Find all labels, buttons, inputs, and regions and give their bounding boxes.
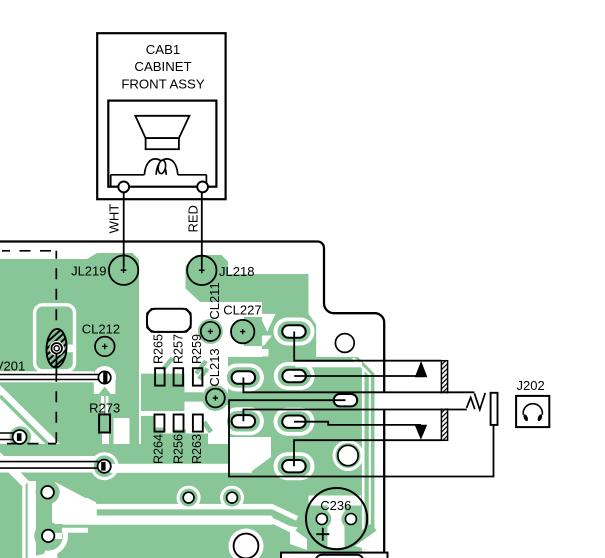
white band above bottom trace xyxy=(97,504,273,510)
resistor R263 xyxy=(190,415,204,465)
via V3 xyxy=(41,486,54,499)
wire from O6 to hatch bar xyxy=(294,440,441,466)
via V5 xyxy=(183,492,194,503)
white moat around bottom circle xyxy=(229,529,264,558)
resistor R256 xyxy=(172,415,186,465)
wire RED speaker to JL218 xyxy=(201,193,203,268)
white keyhole moat around V201 pad xyxy=(93,366,116,395)
jack JL219 xyxy=(71,256,138,285)
jack JL218 xyxy=(187,256,254,285)
oval pad A xyxy=(282,325,306,337)
green copper pour: right column xyxy=(262,302,316,358)
svg-text:RED: RED xyxy=(185,205,200,232)
white notch in right column xyxy=(259,314,276,332)
white vertical channels bottom-left xyxy=(22,481,25,558)
oval pad O4 xyxy=(232,415,256,427)
white trace moat around oval pad O6 xyxy=(274,452,315,480)
via V6 xyxy=(227,492,238,503)
oval pad O2 xyxy=(282,370,306,382)
white channel left of box area xyxy=(228,437,271,471)
green copper pour: strip under resistor row 2 xyxy=(141,434,208,447)
trace bend diagonals xyxy=(272,507,298,519)
svg-text:FRONT ASSY: FRONT ASSY xyxy=(121,76,205,91)
resistor R257 xyxy=(172,334,186,386)
green pad island P1 xyxy=(9,426,31,448)
wire from O5 with down arrow xyxy=(294,422,427,440)
green pad island O1 xyxy=(227,367,260,388)
white moat around P2 pad xyxy=(91,452,119,480)
svg-text:R264: R264 xyxy=(151,434,165,464)
oval pad in bottom box xyxy=(316,555,364,558)
green pad island O5 xyxy=(278,411,311,432)
green pad island A xyxy=(278,321,311,342)
white corner stripe cuts xyxy=(353,356,376,375)
svg-text:C236: C236 xyxy=(320,498,351,513)
green chevron under C236 xyxy=(298,527,374,554)
green bottom trace xyxy=(97,509,273,515)
resistor R259 xyxy=(190,334,204,386)
oval pad O5 xyxy=(282,416,306,428)
wires to pad P1 xyxy=(0,433,17,440)
white wedge below banner tip xyxy=(55,482,97,522)
green diagonal trace in white region xyxy=(60,482,98,502)
green bump CL213 xyxy=(202,385,232,411)
green bridge to CL213 xyxy=(185,392,204,401)
wire from O1: band top xyxy=(243,378,474,393)
speaker terminal left xyxy=(118,182,129,193)
svg-text:JL218: JL218 xyxy=(219,264,254,279)
white channel left below A xyxy=(254,349,269,356)
svg-text:CABINET: CABINET xyxy=(134,59,191,74)
white trace moat around oval pad O2 xyxy=(274,362,315,390)
white channel above green banner xyxy=(110,464,252,473)
svg-text:R256: R256 xyxy=(172,434,186,464)
break zigzag xyxy=(467,393,486,410)
voice coil xyxy=(111,159,207,187)
svg-text:R257: R257 xyxy=(172,334,186,364)
green island via V5 xyxy=(180,489,198,507)
green blob via V4 xyxy=(34,522,62,550)
speaker terminal right xyxy=(197,182,208,193)
white moat around via V5 xyxy=(177,486,201,510)
hatch bar connector xyxy=(441,361,447,441)
wire from O4: band bottom xyxy=(243,410,466,422)
green copper pour: left slab xyxy=(0,253,139,444)
svg-text:J202: J202 xyxy=(516,378,544,393)
green column under tongue left xyxy=(141,416,154,446)
oval pad O1 xyxy=(232,371,256,383)
svg-text:CL227: CL227 xyxy=(223,302,261,317)
white region right of via neck xyxy=(52,498,96,524)
green island via V6 xyxy=(223,489,241,507)
via V2 xyxy=(338,445,358,465)
white moat around via V2 xyxy=(333,440,364,471)
speaker cone xyxy=(135,116,189,138)
wire WHT speaker to JL219 xyxy=(123,193,125,268)
green pad island O4 xyxy=(227,411,260,432)
headphone jack J202 xyxy=(516,378,549,427)
capacitor CL227 xyxy=(223,302,261,343)
bottom white circle pad xyxy=(234,534,259,558)
dashed boundary line xyxy=(0,251,56,444)
green trace streaks around resistor footprints xyxy=(163,358,208,379)
svg-text:WHT: WHT xyxy=(106,204,121,234)
white channel horizontal inside C236 xyxy=(309,496,362,506)
white trace moat around oval pad A xyxy=(274,318,315,346)
green diagonal trace bottom-left xyxy=(0,396,48,444)
hatched ellipse component xyxy=(46,328,68,368)
white silkscreen rounded rect outline xyxy=(35,305,75,371)
pad P2 xyxy=(98,460,111,473)
white wedge right of C236 xyxy=(355,529,376,552)
white trace moat around oval pad O5 xyxy=(274,408,315,436)
white strips behind R273 xyxy=(101,396,104,414)
speaker magnet xyxy=(146,138,179,149)
svg-text:R263: R263 xyxy=(190,434,204,464)
wire from O2 with up arrow xyxy=(294,361,427,377)
green island P2 pad xyxy=(94,455,116,477)
green copper pour: JL218 pad octagon and top band xyxy=(186,255,309,302)
white moat around via V6 xyxy=(220,486,244,510)
via V1 xyxy=(335,334,354,353)
wires to pad P2 xyxy=(0,462,102,469)
hatched ellipse center pad xyxy=(49,341,64,356)
green diagonal trace P1 to P2 xyxy=(24,446,58,477)
capacitor CL212 xyxy=(82,321,120,356)
svg-text:JL219: JL219 xyxy=(71,264,106,279)
white channel under wire A xyxy=(296,362,363,367)
CAB1 cabinet outer box xyxy=(97,33,225,199)
green pad island O6 xyxy=(278,456,311,477)
white edge stripe 2 on right slab xyxy=(369,374,371,551)
svg-text:R265: R265 xyxy=(151,334,165,364)
svg-text:CL211: CL211 xyxy=(207,282,222,319)
white channel vertical inside C236 xyxy=(328,496,345,550)
resistor R264 xyxy=(151,415,165,465)
green island via V2 xyxy=(336,443,361,468)
white channel for V201 wires xyxy=(0,371,94,382)
green copper pour: big right slab xyxy=(228,357,375,553)
green island C236 right pin xyxy=(341,510,360,529)
PCB board outline xyxy=(0,242,384,558)
green copper pour: tongue between resistor rows xyxy=(141,374,185,411)
bottom component box xyxy=(281,553,388,558)
svg-text:CL212: CL212 xyxy=(82,321,120,336)
resistor R265 xyxy=(151,334,165,386)
capacitor C236 xyxy=(306,488,367,549)
white edge stripe 1 on right slab xyxy=(362,369,365,551)
capacitor CL211 xyxy=(201,282,222,341)
white trace moat around oval pad O4 xyxy=(223,407,264,435)
capacitor CL213 xyxy=(206,348,225,407)
green bump CL211 xyxy=(198,319,223,344)
green pad island O2 xyxy=(278,366,311,387)
green copper pour: bottom slab xyxy=(0,444,310,558)
white notch tab on outline xyxy=(64,345,75,353)
green blob via V3 xyxy=(36,480,60,504)
wires to V201 pad xyxy=(0,375,103,380)
white channel for P2 wires xyxy=(0,456,100,473)
green island C236 left pin xyxy=(312,510,331,529)
resistor R273 xyxy=(89,400,120,432)
speaker inner box xyxy=(108,101,216,187)
svg-text:V201: V201 xyxy=(0,359,25,374)
white wedge left of C236 xyxy=(290,526,307,550)
svg-text:CAB1: CAB1 xyxy=(146,42,180,57)
wire loop from O3 around to jack sleeve xyxy=(229,400,494,476)
pad V201 xyxy=(98,371,110,384)
svg-text:R259: R259 xyxy=(190,334,204,364)
white band over hatch bar xyxy=(377,393,475,408)
oval pad O6 xyxy=(282,460,306,472)
white band below bottom trace xyxy=(63,516,273,525)
wire from A to hatch bar xyxy=(294,332,441,361)
pad P1 xyxy=(13,430,27,444)
white arc channel around V4 blob xyxy=(45,531,66,553)
white diagonal channel bottom-left xyxy=(0,452,26,484)
via V4 xyxy=(42,530,54,542)
white trace moat around oval pad O1 xyxy=(223,364,264,392)
svg-text:R273: R273 xyxy=(89,400,120,415)
green neck between vias V3 V4 xyxy=(43,492,52,538)
svg-text:CL213: CL213 xyxy=(207,348,222,386)
white bar at V4 ring xyxy=(50,533,62,539)
oval pad O3 xyxy=(334,394,358,406)
jack sleeve rectangle xyxy=(491,393,498,425)
white wedge below oval A ring xyxy=(253,336,272,346)
crystal component outline xyxy=(147,309,191,332)
green bump CL227 xyxy=(230,317,262,346)
